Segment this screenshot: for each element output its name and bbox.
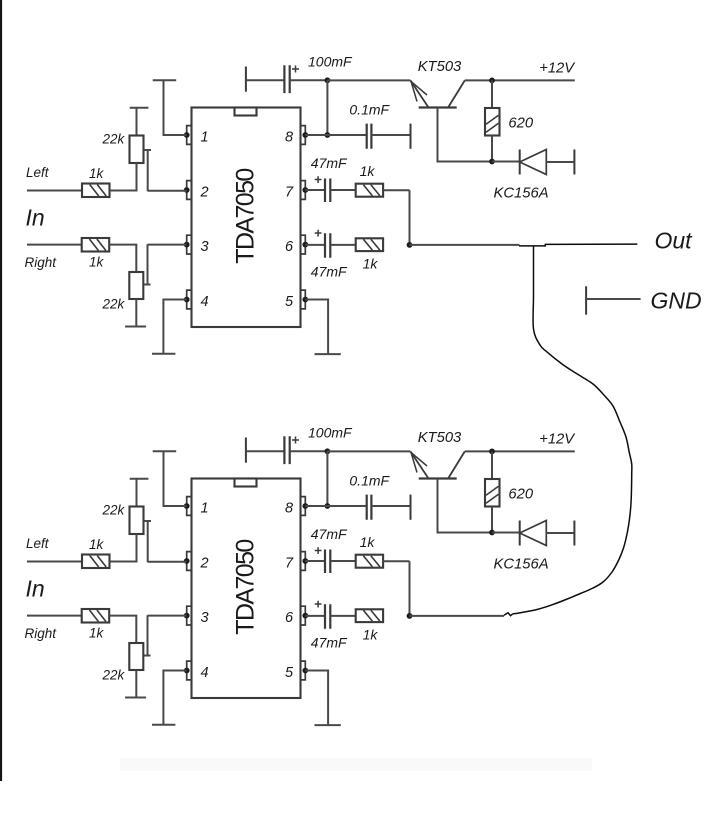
resistor 1k (Left input) R2a (82, 555, 110, 569)
capacitor 47mF C1d plates (325, 233, 330, 258)
resistor 1k (Right input) R2c (82, 609, 110, 623)
47mF upper polarity + (315, 547, 322, 554)
svg-text:100mF: 100mF (308, 54, 353, 70)
wire 1k upper to link (383, 189, 409, 191)
zener diode D2 KC156A anode wire (492, 532, 520, 534)
wire 0.1mF to terminal (371, 505, 410, 507)
wire 1k to 22k lower junction (109, 244, 137, 246)
terminal bar above 22k upper (130, 107, 149, 109)
wire 47mF to 1k lower (330, 615, 355, 617)
transistor Q2 collector (448, 451, 464, 478)
svg-text:7: 7 (285, 555, 294, 571)
wire 1k to 22k junction (110, 561, 138, 563)
transistor Q1 collector (448, 80, 464, 107)
U1 pin 4 bracket (187, 290, 192, 309)
hand-drawn wire linking top Out to bottom output (513, 246, 632, 614)
U1 pin 5 dot (302, 297, 308, 303)
svg-text:47mF: 47mF (311, 635, 348, 651)
svg-text:1k: 1k (89, 537, 105, 552)
svg-text:KC156A: KC156A (494, 557, 549, 573)
wire pin 4 to ground (163, 300, 186, 354)
svg-text:1: 1 (201, 129, 209, 145)
svg-text:TDA7050: TDA7050 (232, 169, 260, 264)
resistor 1k output upper R1f (356, 184, 383, 197)
capacitor 100mF C2a plates (284, 436, 289, 464)
svg-text:Right: Right (25, 255, 58, 270)
svg-text:In: In (26, 576, 45, 602)
U2 pin 4 bracket (187, 661, 192, 680)
svg-text:8: 8 (285, 500, 293, 516)
ground at pin 4 (152, 724, 175, 726)
svg-text:1: 1 (201, 500, 209, 516)
wire collector to +12V rail (465, 79, 575, 81)
wire pin 6 to 47mF (305, 244, 325, 246)
U1 pin 1 bracket (187, 126, 192, 145)
wire junction down to pin 8 net (326, 80, 328, 135)
svg-text:3: 3 (201, 239, 209, 255)
wire 1k to 22k lower junction (109, 615, 137, 617)
U1 pin 7 dot (302, 187, 308, 193)
resistor 1k output lower R2g (356, 609, 383, 622)
node output junction dot (407, 613, 413, 619)
wire terminal to pin 1 (164, 451, 187, 506)
wire 620 top lead (491, 80, 493, 108)
svg-text:In: In (26, 205, 45, 231)
U2 pin 2 bracket (187, 552, 192, 571)
wire tap stub to pin 3 (144, 244, 187, 284)
U1 pin 6 bracket (301, 235, 306, 254)
node zener junction dot (489, 530, 495, 536)
transistor Q1 KT503 emitter (410, 80, 428, 107)
U1 pin 8 bracket (301, 126, 306, 145)
zener diode D2 triangle (520, 521, 547, 546)
node +12V rail dot (489, 449, 495, 455)
left border line (0, 0, 2, 781)
wire base down (438, 108, 493, 162)
U2 pin 8 dot (302, 503, 308, 509)
wire 1k upper to link (383, 560, 409, 562)
svg-text:+12V: +12V (539, 61, 576, 77)
wire pin 8 to 0.1mF (305, 505, 366, 507)
svg-text:47mF: 47mF (311, 526, 348, 542)
U2 pin 1 dot (184, 503, 190, 509)
wire Left input (27, 190, 82, 192)
svg-text:KT503: KT503 (418, 59, 462, 75)
zener diode D1 cathode bar (519, 150, 521, 175)
hand-drawn zigzag at bottom join (504, 613, 513, 616)
capacitor 0.1mF C1b plates (367, 124, 372, 149)
resistor 620 R2e (485, 479, 500, 507)
wire 22k upper bottom lead (136, 163, 138, 191)
zener terminal bar (573, 150, 575, 175)
47mF lower polarity + (315, 230, 322, 237)
svg-text:Out: Out (655, 228, 694, 254)
svg-text:22k: 22k (102, 503, 126, 518)
GND terminal bar (585, 286, 587, 314)
resistor 22k lower R2d (129, 643, 143, 670)
U2 pin 5 bracket (301, 661, 306, 680)
resistor 1k (Right input) R1c (82, 238, 110, 252)
svg-text:+12V: +12V (539, 432, 576, 448)
U2 pin 5 dot (302, 668, 308, 674)
node pin8 net dot (325, 132, 331, 138)
capacitor 0.1mF C2b plates (367, 495, 372, 520)
transistor Q2 emitter arrow (411, 452, 427, 472)
U2 pin 6 dot (302, 613, 308, 619)
wire link down (409, 190, 411, 245)
U2 pin 7 dot (302, 558, 308, 564)
U2 pin 4 dot (184, 668, 190, 674)
wire 620 bottom lead (491, 136, 493, 162)
wire output (410, 244, 520, 246)
svg-text:22k: 22k (102, 668, 126, 683)
wire pin 7 to 47mF (305, 189, 325, 191)
terminal bar feeding pin 1 (153, 79, 177, 81)
U2 pin 3 dot (184, 613, 190, 619)
svg-text:22k: 22k (102, 297, 126, 312)
node output junction dot (407, 242, 413, 248)
U1 pin 6 dot (302, 242, 308, 248)
47mF upper polarity + (315, 176, 322, 183)
zener diode D1 KC156A anode wire (492, 161, 520, 163)
svg-text:22k: 22k (102, 132, 126, 147)
wire zener to terminal (546, 532, 574, 534)
hand-drawn wire out net (top) (519, 244, 637, 246)
wire junction down to pin 8 net (326, 451, 328, 506)
svg-text:47mF: 47mF (311, 264, 348, 280)
svg-text:2: 2 (200, 555, 209, 571)
node rail junction dot (325, 448, 331, 454)
capacitor 47mF C1c plates (325, 179, 330, 203)
wire 0.1mF to terminal (371, 134, 410, 136)
capacitor 100mF C1a plates (284, 65, 289, 93)
wire pin 5 to ground (305, 671, 328, 726)
svg-text:1k: 1k (89, 255, 105, 270)
svg-text:Left: Left (26, 536, 50, 551)
svg-text:TDA7050: TDA7050 (232, 540, 260, 635)
U2 orientation notch (235, 479, 257, 487)
U1 pin 2 bracket (187, 181, 192, 200)
wire base down (438, 479, 493, 533)
resistor 22k upper R2b (130, 507, 144, 535)
transistor Q2 base bar (419, 477, 457, 479)
svg-text:1k: 1k (363, 256, 379, 272)
terminal bar above 22k upper (130, 478, 149, 480)
wire link down (409, 561, 411, 616)
svg-text:6: 6 (285, 610, 294, 626)
ground at pin 5 (315, 724, 341, 726)
svg-text:KC156A: KC156A (494, 186, 549, 202)
zener terminal bar (573, 521, 575, 546)
node rail junction dot (325, 77, 331, 83)
100mF polarity + (292, 437, 299, 444)
op-amp U2 TDA7050 IC body (192, 479, 301, 699)
svg-text:6: 6 (285, 239, 294, 255)
svg-text:1k: 1k (89, 626, 105, 641)
wire 620 bottom lead (491, 507, 493, 533)
wire 47mF to 1k lower (330, 244, 355, 246)
wire tap stub to pin 3 (144, 615, 187, 655)
100mF polarity + (292, 66, 299, 73)
U2 pin 8 bracket (301, 497, 306, 516)
svg-text:GND: GND (651, 288, 702, 314)
wire tap stub to pin 2 (144, 150, 187, 191)
svg-text:8: 8 (285, 129, 293, 145)
resistor 22k upper R1b (130, 136, 144, 164)
svg-text:Right: Right (25, 626, 58, 641)
wire 47mF to 1k upper (330, 189, 355, 191)
wire 22k upper top lead (136, 108, 138, 136)
wire 22k upper top lead (136, 479, 138, 507)
wire GND stub (586, 298, 641, 300)
wire rail junction to emitter (327, 450, 410, 452)
U2 pin 6 bracket (301, 606, 306, 625)
wire terminal to 100mF (246, 450, 285, 452)
transistor Q1 base bar (419, 106, 457, 108)
capacitor 100mF C1a terminal bar (245, 67, 247, 92)
wire collector to +12V rail (465, 450, 575, 452)
wire terminal to 100mF (246, 79, 285, 81)
U2 pin 2 dot (184, 558, 190, 564)
svg-text:100mF: 100mF (308, 425, 353, 441)
wire tap stub to pin 2 (144, 521, 187, 562)
svg-text:4: 4 (201, 294, 209, 310)
svg-text:620: 620 (508, 487, 533, 503)
terminal bar feeding pin 1 (153, 450, 177, 452)
transistor Q2 KT503 emitter (410, 451, 428, 478)
U1 pin 4 dot (184, 297, 190, 303)
svg-text:620: 620 (508, 116, 533, 132)
svg-text:5: 5 (285, 665, 294, 681)
svg-text:1k: 1k (360, 163, 376, 179)
wire 100mF to rail junction (290, 79, 328, 81)
resistor 1k output lower R1g (356, 238, 383, 251)
wire zener to terminal (546, 161, 574, 163)
wire pin 7 to 47mF (305, 560, 325, 562)
svg-text:5: 5 (285, 294, 294, 310)
svg-text:1k: 1k (360, 534, 376, 550)
capacitor 100mF C2a terminal bar (245, 438, 247, 463)
U2 pin 7 bracket (301, 552, 306, 571)
U1 pin 3 bracket (187, 235, 192, 254)
transistor Q1 emitter arrow (411, 81, 427, 101)
svg-text:7: 7 (285, 184, 294, 200)
svg-text:4: 4 (201, 665, 209, 681)
capacitor 0.1mF terminal bar (410, 495, 412, 520)
U1 pin 1 dot (184, 132, 190, 138)
capacitor 47mF C2c plates (325, 550, 330, 574)
U1 pin 7 bracket (301, 181, 306, 200)
wire terminal to pin 1 (164, 80, 187, 135)
U1 pin 2 dot (184, 187, 190, 193)
ground at pin 5 (315, 353, 341, 355)
decor (120, 758, 592, 771)
svg-text:Left: Left (26, 165, 50, 180)
wire pin 4 to ground (163, 671, 186, 725)
svg-text:0.1mF: 0.1mF (349, 473, 390, 489)
svg-text:3: 3 (201, 610, 209, 626)
capacitor 47mF C2d plates (325, 604, 330, 629)
wire 22k lower top lead (135, 245, 137, 272)
U2 pin 3 bracket (187, 606, 192, 625)
wire pin 5 to ground (305, 300, 328, 355)
wire 620 top lead (491, 451, 493, 479)
wire 22k lower bottom lead (135, 299, 137, 327)
resistor 620 R1e (485, 108, 500, 136)
U1 orientation notch (235, 108, 257, 116)
wire 100mF to rail junction (290, 450, 328, 452)
zener diode D2 cathode bar (519, 521, 521, 546)
svg-text:0.1mF: 0.1mF (349, 102, 390, 118)
ground at pin 4 (152, 353, 175, 355)
wire 22k lower bottom lead (135, 670, 137, 698)
wire pin 6 to 47mF (305, 615, 325, 617)
svg-text:2: 2 (200, 184, 209, 200)
resistor 22k lower R1d (129, 272, 143, 299)
wire Left input (27, 561, 82, 563)
node zener junction dot (489, 159, 495, 165)
U1 pin 8 dot (302, 132, 308, 138)
U1 pin 3 dot (184, 242, 190, 248)
wire rail junction to emitter (327, 79, 410, 81)
node +12V rail dot (489, 78, 495, 84)
wire Right input (27, 615, 82, 617)
capacitor 0.1mF terminal bar (410, 124, 412, 149)
svg-text:KT503: KT503 (418, 430, 462, 446)
ground below 22k lower (125, 697, 146, 699)
wire output (410, 615, 505, 617)
wire 47mF to 1k upper (330, 560, 355, 562)
node pin8 net dot (325, 503, 331, 509)
wire pin 8 to 0.1mF (305, 134, 366, 136)
zener diode D1 triangle (520, 150, 547, 175)
svg-text:1k: 1k (363, 627, 379, 643)
wire 22k upper bottom lead (136, 534, 138, 562)
wire 22k lower top lead (135, 616, 137, 643)
svg-text:47mF: 47mF (311, 155, 348, 171)
ground below 22k lower (125, 326, 146, 328)
U2 pin 1 bracket (187, 497, 192, 516)
U1 pin 5 bracket (301, 290, 306, 309)
wire 1k to 22k junction (110, 190, 138, 192)
svg-text:1k: 1k (89, 166, 105, 181)
resistor 1k output upper R2f (356, 555, 383, 568)
wire Right input (27, 244, 82, 246)
47mF lower polarity + (315, 601, 322, 608)
op-amp U1 TDA7050 IC body (192, 108, 301, 328)
resistor 1k (Left input) R1a (82, 184, 110, 198)
